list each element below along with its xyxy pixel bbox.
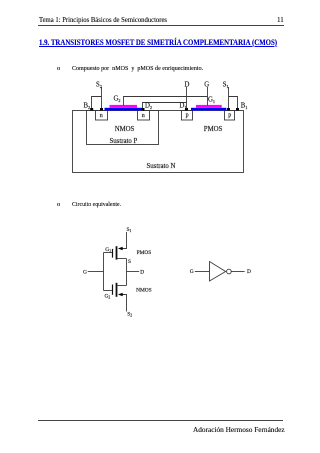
PMOS U1 gate bar bbox=[112, 249, 114, 258]
svg-text:PMOS: PMOS bbox=[204, 126, 223, 133]
inverter bubble bbox=[227, 269, 232, 274]
terminal S2 label bbox=[96, 81, 102, 89]
body B2 label bbox=[84, 102, 91, 110]
inverter G label bbox=[190, 269, 194, 275]
substrate P well box bbox=[87, 111, 159, 145]
contact S2 bbox=[100, 108, 103, 111]
NMOS gate metal (magenta) bbox=[110, 105, 138, 108]
bullet 1 marker bbox=[57, 65, 60, 72]
PMOS gate metal (magenta) bbox=[196, 105, 222, 108]
svg-text:NMOS: NMOS bbox=[115, 126, 135, 133]
circuit S1 terminal label bbox=[127, 227, 132, 233]
svg-text:n: n bbox=[100, 113, 103, 119]
NMOS gate lead bbox=[104, 290, 113, 292]
inverter input wire bbox=[195, 271, 210, 273]
NMOS Q2 gate bar bbox=[112, 285, 114, 295]
p+ well drain PMOS bbox=[182, 111, 193, 121]
wire D2-D1 bus bbox=[143, 103, 187, 109]
svg-text:S1: S1 bbox=[223, 81, 229, 89]
svg-text:n: n bbox=[142, 113, 145, 119]
n+ well drain NMOS bbox=[138, 111, 150, 121]
bullet 2 text bbox=[72, 201, 121, 208]
svg-text:G: G bbox=[83, 269, 87, 275]
D output label bbox=[140, 269, 144, 275]
node S label bbox=[128, 259, 131, 265]
wire G2-G1 bus bbox=[124, 97, 208, 106]
body B1 label bbox=[241, 102, 248, 110]
p+ drain label bbox=[186, 112, 189, 118]
n+ source label bbox=[100, 113, 103, 119]
drain D1 label bbox=[180, 102, 187, 110]
wire S1 vertical bbox=[228, 87, 230, 108]
gate bus vertical bbox=[103, 253, 105, 291]
svg-text:Sustrato N: Sustrato N bbox=[147, 163, 176, 170]
svg-text:G2: G2 bbox=[114, 96, 121, 104]
NMOS Q2 channel bar bbox=[116, 283, 118, 297]
NMOS source arrow bbox=[118, 293, 123, 297]
gate G2 label bbox=[114, 96, 121, 104]
svg-text:G2: G2 bbox=[105, 293, 111, 299]
circuit S2 terminal label bbox=[127, 311, 132, 317]
NMOS name label bbox=[136, 287, 152, 293]
svg-text:D: D bbox=[247, 269, 251, 275]
wire S2-B2 branch bbox=[92, 97, 102, 109]
terminal S1 label bbox=[223, 81, 229, 89]
terminal D label bbox=[185, 81, 190, 88]
NMOS drain lead bbox=[117, 285, 127, 287]
output node wire bbox=[126, 259, 128, 286]
NMOS source lead bbox=[122, 295, 127, 312]
wire D vertical bbox=[186, 87, 188, 108]
inverter U2 triangle bbox=[210, 262, 226, 282]
header page number bbox=[277, 16, 284, 24]
n+ drain label bbox=[142, 113, 145, 119]
svg-text:D1: D1 bbox=[180, 102, 187, 110]
svg-text:B2: B2 bbox=[84, 102, 91, 110]
p+ source label bbox=[228, 112, 231, 118]
wire G vertical bbox=[207, 87, 209, 106]
contact S1 bbox=[227, 108, 230, 111]
header left text bbox=[39, 16, 167, 24]
svg-text:p: p bbox=[228, 112, 231, 118]
PMOS drain lead bbox=[117, 258, 127, 260]
svg-text:PMOS: PMOS bbox=[137, 250, 152, 256]
svg-text:S1: S1 bbox=[127, 227, 132, 233]
svg-text:G1: G1 bbox=[105, 247, 111, 253]
PMOS gate lead bbox=[104, 252, 113, 254]
wire S1 to PMOS source bbox=[122, 232, 127, 249]
NMOS region label bbox=[115, 126, 135, 133]
svg-text:G: G bbox=[190, 269, 194, 275]
svg-text:G: G bbox=[204, 81, 209, 88]
svg-text:p: p bbox=[186, 112, 189, 118]
section title bbox=[39, 38, 277, 47]
svg-text:NMOS: NMOS bbox=[136, 287, 152, 293]
inverter output wire bbox=[231, 271, 244, 273]
svg-text:Sustrato P: Sustrato P bbox=[110, 138, 138, 145]
substrate N box bbox=[73, 111, 244, 173]
contact B1 bbox=[236, 108, 239, 111]
PMOS region label bbox=[204, 126, 223, 133]
svg-text:D: D bbox=[185, 81, 190, 88]
PMOS gate oxide (blue) bbox=[191, 108, 226, 111]
wire S2 vertical bbox=[101, 87, 103, 108]
svg-text:S2: S2 bbox=[127, 311, 132, 317]
n+ well source NMOS bbox=[96, 111, 108, 121]
PMOS U1 channel bar bbox=[116, 246, 118, 259]
substrate N label bbox=[147, 163, 176, 170]
wire S1-B1 branch bbox=[229, 97, 238, 109]
footer rule bbox=[38, 420, 283, 421]
wire D output bbox=[127, 271, 140, 273]
p+ well source PMOS bbox=[225, 111, 235, 121]
svg-text:S: S bbox=[128, 259, 131, 265]
PMOS source arrow bbox=[118, 247, 123, 251]
G input label bbox=[83, 269, 87, 275]
substrate P label bbox=[110, 138, 138, 145]
drain D2 label bbox=[145, 102, 152, 110]
header rule bbox=[38, 25, 284, 26]
NMOS gate oxide (blue) bbox=[105, 108, 143, 111]
contact D1 bbox=[185, 108, 188, 111]
NMOS G2 label bbox=[105, 293, 111, 299]
svg-text:S2: S2 bbox=[96, 81, 102, 89]
contact B2 bbox=[90, 108, 93, 111]
bullet 1 text bbox=[72, 65, 203, 72]
inverter D label bbox=[247, 269, 251, 275]
wire G input bbox=[88, 271, 104, 273]
svg-text:D: D bbox=[140, 269, 144, 275]
footer author bbox=[193, 425, 285, 434]
PMOS G1 label bbox=[105, 247, 111, 253]
bullet 2 marker bbox=[57, 201, 60, 208]
gate G1 label bbox=[208, 96, 215, 104]
svg-text:D2: D2 bbox=[145, 102, 152, 110]
svg-text:G1: G1 bbox=[208, 96, 215, 104]
terminal G label bbox=[204, 81, 209, 88]
contact D2 bbox=[142, 108, 145, 111]
svg-text:B1: B1 bbox=[241, 102, 248, 110]
PMOS name label bbox=[137, 250, 152, 256]
